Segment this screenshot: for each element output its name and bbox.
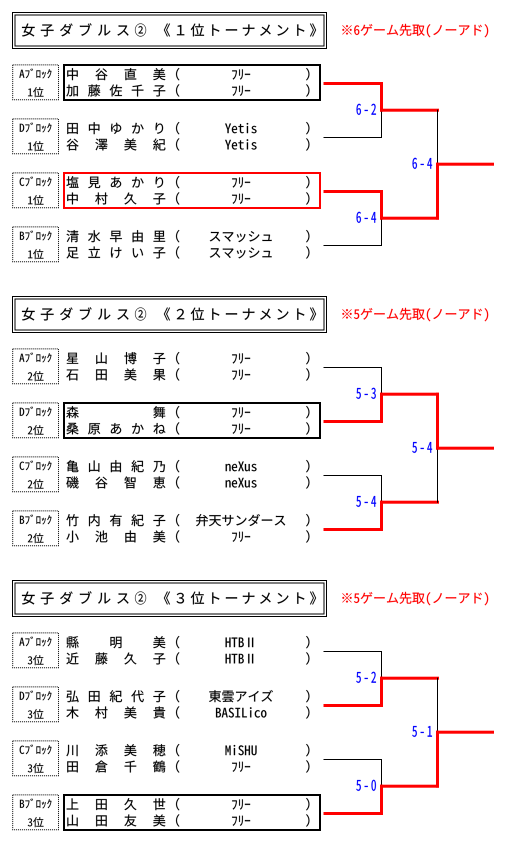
final connector lower (436, 163, 439, 220)
team names 縣明美/近藤久子 (67, 636, 79, 648)
final connector lower (436, 731, 439, 788)
final connector lower (437, 448, 438, 503)
score SF1 5-2 (356, 672, 361, 683)
final connector upper (437, 110, 438, 165)
score SF2 5-4 (356, 496, 361, 507)
red note ※5ゲーム先取(ノーアド) (342, 309, 351, 318)
SF2 connector upper (380, 190, 383, 220)
team line B (324, 245, 382, 246)
team line B (324, 528, 384, 531)
black team box (64, 65, 320, 100)
block label D 3位 (13, 687, 59, 722)
parens + clubs (176, 230, 179, 242)
block label B 3位 (13, 795, 59, 830)
SF1 connector upper (381, 367, 382, 395)
team names 中谷直美/加藤佐千子 (67, 68, 77, 80)
team names 森舞/桑原あかね (66, 406, 78, 418)
team line C (324, 759, 382, 760)
SF2 out line (380, 217, 439, 220)
team names 上田久世/山田友美 (67, 798, 79, 809)
team line B (324, 812, 384, 815)
SF1 out line (380, 109, 439, 112)
red team box (64, 173, 320, 208)
SF2 connector lower (380, 501, 383, 531)
parens + clubs (176, 352, 179, 364)
winner line (436, 447, 494, 450)
red note ※6ゲーム先取(ノーアド) (342, 25, 351, 34)
SF1 connector lower (381, 110, 382, 138)
SF1 connector lower (380, 677, 383, 707)
parens + clubs (176, 744, 179, 756)
block label C 3位 (13, 741, 59, 776)
team names 塩見あかり/中村久子 (66, 176, 78, 188)
title box section 3位 (13, 581, 327, 617)
team names 竹内有紀子/小池由美 (66, 514, 78, 526)
block label A 1位 (13, 65, 59, 100)
winner line (436, 163, 494, 166)
block label B 2位 (13, 511, 59, 546)
block label C 2位 (13, 457, 59, 492)
team names 星山博子/石田美果 (67, 353, 79, 364)
black team box (64, 403, 320, 438)
SF2 out line (380, 501, 439, 504)
team line A (324, 82, 384, 85)
SF2 connector upper (381, 759, 382, 787)
parens + clubs (176, 68, 179, 80)
parens + clubs (176, 690, 179, 702)
team line D (324, 137, 382, 138)
parens + clubs (176, 798, 179, 810)
score SF1 6-2 (357, 104, 361, 115)
parens + clubs (176, 460, 179, 472)
team line C (324, 190, 384, 193)
team line A (324, 651, 382, 652)
parens + clubs (176, 122, 179, 134)
block label A 2位 (13, 349, 59, 384)
black team box (64, 795, 320, 830)
block label D 1位 (13, 119, 59, 154)
title text (22, 592, 35, 605)
final connector upper (437, 678, 438, 733)
team names 川添美穂/田倉千鶴 (66, 745, 77, 756)
team names 弘田紀代子/木村美貴 (67, 691, 79, 703)
team line C (324, 475, 382, 476)
red note ※5ゲーム先取(ノーアド) (342, 593, 351, 602)
SF1 connector upper (381, 651, 382, 679)
SF2 connector lower (380, 785, 383, 815)
SF2 out line (380, 785, 439, 788)
score final 5-1 (412, 726, 417, 737)
parens + clubs (176, 636, 179, 648)
SF2 connector lower (381, 218, 382, 246)
block label B 1位 (13, 227, 59, 262)
team names 亀山由紀乃/磯谷智恵 (67, 460, 79, 472)
title text (22, 24, 35, 37)
block label C 1位 (13, 173, 59, 208)
score SF2 6-4 (357, 212, 361, 223)
SF2 connector upper (381, 475, 382, 503)
SF1 connector lower (380, 393, 383, 423)
winner line (436, 731, 494, 734)
parens + clubs (176, 406, 179, 418)
SF1 out line (380, 393, 439, 396)
score SF2 5-0 (356, 780, 361, 791)
score final 6-4 (413, 158, 417, 169)
team line A (324, 367, 382, 368)
title box section 1位 (13, 13, 327, 49)
SF1 out line (380, 677, 439, 680)
SF1 connector upper (380, 82, 383, 112)
parens + clubs (176, 514, 179, 526)
final connector upper (436, 393, 439, 450)
team names 田中ゆかり/谷澤美紀 (67, 123, 78, 134)
team names 清水早由里/足立けい子 (66, 230, 78, 242)
parens + clubs (176, 176, 179, 188)
team line D (324, 420, 384, 423)
title text (22, 308, 35, 321)
team line D (324, 704, 384, 707)
block label A 3位 (13, 633, 59, 668)
score final 5-4 (412, 442, 417, 453)
block label D 2位 (13, 403, 59, 438)
score SF1 5-3 (356, 388, 361, 399)
title box section 2位 (13, 297, 327, 333)
